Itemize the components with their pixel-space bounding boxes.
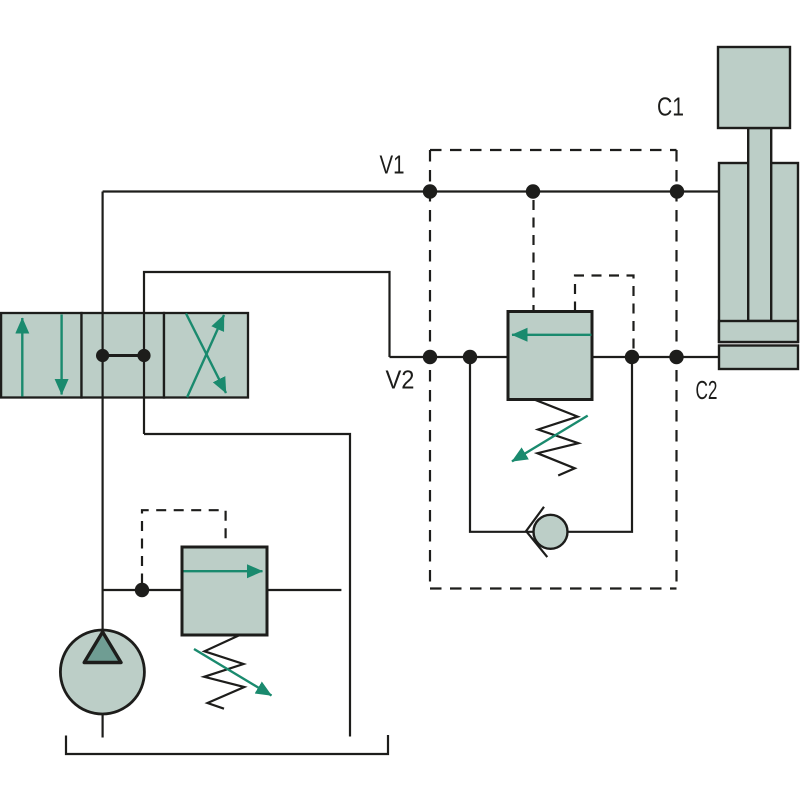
node valve port P [96,349,109,362]
node on V2 at enclosure left [423,350,437,364]
counterbalance valve CB1 body [508,312,592,400]
node on V2 bypass right [625,350,639,364]
relief valve spring [204,635,244,709]
relief valve RV1 body [182,547,267,635]
node on V2 bypass left [463,350,477,364]
dashed enclosure bottom edge [430,587,677,589]
dashed enclosure top edge [430,149,677,151]
counterbalance valve adjustment arrow [512,416,588,462]
relief valve flow arrow (right) [184,570,263,572]
directional valve DV1 cell 3 (right, crossed arrows) [164,313,248,398]
node valve port A [137,349,150,362]
node C1 [670,184,684,198]
svg-text:V1: V1 [380,150,405,180]
wire pump suction [101,714,103,738]
dashed enclosure left edge [429,150,431,589]
node on V1 at enclosure left [423,184,437,198]
flow arrow crossed down-right (cell 3) [186,314,226,394]
check valve CV1 seat [526,507,547,557]
flow arrow down (cell 1) [60,315,62,395]
counterbalance valve flow arrow (left) [512,334,591,336]
svg-text:V2: V2 [386,365,415,395]
wire tank return [144,434,350,737]
wire pressure tap to relief valve [103,589,182,591]
counterbalance valve spring [534,399,579,475]
relief valve pilot dashed line [142,510,226,583]
wire valve port A to V2 [144,272,390,434]
pump P1 triangle [84,632,121,663]
cylinder piston [719,321,798,342]
dashed enclosure right edge [675,150,677,589]
pump P1 circle [60,630,144,714]
cylinder load block [718,47,790,128]
pilot line from V2 to counterbalance valve spring side [575,276,634,358]
flow arrow crossed up-right (cell 3) [187,315,224,397]
cylinder C body [719,163,798,342]
wire V1 vertical + pump pressure line [101,192,103,631]
wire relief valve outlet [267,589,341,591]
directional valve DV1 cell 1 (left, parallel arrows) [1,313,81,398]
wire check valve bypass [470,357,632,532]
directional valve DV1 cell 2 (center, blocked ports) [82,313,165,398]
wire V2 horizontal to cylinder C2 [390,356,720,358]
node relief pilot takeoff [135,583,149,597]
node on V1 pilot takeoff [526,184,540,198]
node C2 [669,350,683,364]
wire V1 horizontal to cylinder C1 [103,190,719,192]
svg-text:C1: C1 [657,92,684,122]
svg-text:C2: C2 [696,375,718,405]
relief valve adjustment arrow [194,649,272,696]
check valve CV1 ball [534,515,568,549]
tank T1 [66,735,388,754]
flow arrow up (cell 1) [21,318,23,397]
cylinder base block [719,346,798,370]
pilot line from V1 to counterbalance valve [532,200,534,312]
cylinder piston rod [748,128,771,321]
wire middle cell link [103,354,144,357]
